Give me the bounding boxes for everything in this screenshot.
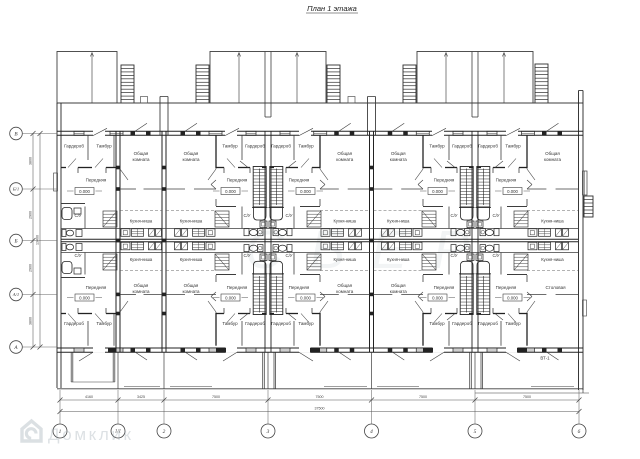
- axis line А/1: [22, 294, 57, 296]
- axis extension line 1: [59, 390, 61, 424]
- kitchen fixtures bottom row: [528, 242, 569, 250]
- dashed service line top: [320, 210, 370, 212]
- room label Тамбур: [298, 144, 314, 149]
- svg-text:Тамбур: Тамбур: [429, 321, 445, 326]
- dashed service line top: [166, 210, 216, 212]
- dashed service line bottom: [374, 270, 424, 272]
- room label Тамбур: [429, 144, 445, 149]
- watermark logo: [22, 421, 41, 441]
- room label Передняя: [434, 178, 455, 183]
- external ladder right side: [584, 196, 593, 217]
- svg-text:С/У: С/У: [243, 253, 250, 258]
- dashed service line top: [527, 210, 578, 212]
- room label Кухня-ниша top: [130, 219, 153, 224]
- svg-text:Гардероб: Гардероб: [478, 321, 498, 326]
- corner stair M475 s-1 b: [422, 254, 436, 270]
- room label Общая комната top: [390, 151, 408, 162]
- svg-text:2900: 2900: [29, 211, 33, 219]
- left dim text 3800: [29, 317, 33, 325]
- kitchen fixtures bottom row: [321, 242, 362, 250]
- entry windows/door bottom: [223, 347, 256, 361]
- wc fixtures left-end top: [62, 208, 82, 237]
- corner stair left-end: [103, 254, 117, 270]
- entry windows/door left-end bottom: [74, 347, 105, 361]
- svg-text:Кухня-ниша: Кухня-ниша: [334, 219, 357, 224]
- bottom facade wall band: [57, 348, 583, 352]
- svg-text:Б: Б: [13, 238, 17, 244]
- room label С/У: [285, 213, 292, 218]
- svg-text:Передняя: Передняя: [227, 178, 248, 183]
- room label С/У: [450, 213, 457, 218]
- axis extension line 1/1: [117, 390, 119, 424]
- room label Общая комната bottom: [336, 283, 354, 294]
- living col wall top: [120, 188, 162, 190]
- title: План 1 этажа: [306, 4, 358, 13]
- room label Кухня-ниша top: [541, 219, 564, 224]
- axis line А: [22, 346, 57, 348]
- axis extension line 5: [474, 390, 476, 424]
- room label Гардероб: [452, 321, 472, 326]
- wc fixtures M475 s1 t: [476, 208, 500, 236]
- living col wall top: [320, 188, 370, 190]
- svg-text:3: 3: [266, 429, 270, 435]
- svg-text:0.000: 0.000: [225, 295, 236, 300]
- bottom dim chain: [58, 398, 582, 403]
- outdoor stair ladder at x121: [121, 65, 134, 103]
- bottom dim text 7500: [523, 395, 531, 399]
- corner stair M268 s-1 b: [215, 254, 229, 270]
- room label Кухня-ниша top: [180, 219, 203, 224]
- stair shaft M475 s-1 b: [460, 274, 473, 315]
- room label Гардероб: [271, 144, 291, 149]
- living col wall top: [374, 188, 424, 190]
- svg-text:Передняя: Передняя: [496, 285, 517, 290]
- left dim line outer: [31, 131, 36, 350]
- room label Общая комната bottom: [132, 283, 150, 294]
- axis circle Б: [10, 234, 23, 247]
- svg-text:комната: комната: [132, 157, 150, 162]
- living facade top: [522, 123, 563, 135]
- svg-text:7500: 7500: [212, 395, 220, 399]
- kitchen fixtures top row: [175, 229, 216, 237]
- svg-text:7500: 7500: [523, 395, 531, 399]
- svg-text:Общая: Общая: [391, 283, 406, 288]
- bottom facade piers: [108, 348, 527, 353]
- room label Гардероб: [271, 321, 291, 326]
- svg-text:С/У: С/У: [450, 213, 457, 218]
- window right wall: [583, 171, 588, 195]
- room label С/У: [492, 253, 499, 258]
- corner stair M268 s1 t: [307, 211, 321, 227]
- bottom total 37500: [315, 407, 325, 411]
- svg-text:комната: комната: [544, 157, 562, 162]
- svg-text:ВТ-1: ВТ-1: [540, 356, 550, 361]
- svg-text:С/У: С/У: [285, 253, 292, 258]
- walls unit M475 side1 top: [477, 135, 535, 228]
- corner stair M475 s-1 t: [422, 211, 436, 227]
- room label Передняя: [227, 178, 248, 183]
- party wall stub axis 2 above facade: [160, 97, 168, 136]
- entry windows/door bottom: [487, 347, 520, 361]
- walls unit M268 side-1 top: [208, 135, 266, 228]
- svg-text:Тамбур: Тамбур: [298, 144, 314, 149]
- svg-text:3800: 3800: [29, 317, 33, 325]
- room label Общая комната bottom: [390, 283, 408, 294]
- left dim text 3800: [29, 157, 33, 165]
- bottom dim total line: [58, 409, 582, 414]
- bottom dim text 4160: [85, 395, 93, 399]
- room label Тамбур: [505, 144, 521, 149]
- svg-text:Общая: Общая: [134, 151, 149, 156]
- party wall stub axis 4 above facade: [368, 97, 376, 136]
- svg-text:Кухня-ниша: Кухня-ниша: [541, 257, 564, 262]
- outdoor stair ladder at x196: [196, 65, 209, 103]
- svg-text:13400: 13400: [36, 235, 40, 245]
- svg-text:Тамбур: Тамбур: [222, 144, 238, 149]
- walls unit M268 side1 bottom: [270, 253, 328, 346]
- dashed service line bottom: [320, 270, 370, 272]
- room label Тамбур: [505, 321, 521, 326]
- bottom dim text 3425: [137, 395, 145, 399]
- watermark text Домклик: [48, 425, 134, 444]
- kitchen fixtures top row: [321, 229, 362, 237]
- slab step stub x140: [141, 97, 148, 104]
- terrace pair at axis 5: [417, 52, 533, 118]
- room label Гардероб: [478, 321, 498, 326]
- svg-text:0.000: 0.000: [300, 189, 311, 194]
- room label Передняя: [496, 285, 517, 290]
- wc fixtures M268 s1 b: [269, 245, 293, 274]
- svg-text:Общая: Общая: [337, 283, 352, 288]
- svg-text:0.000: 0.000: [300, 295, 311, 300]
- svg-text:С/У: С/У: [492, 213, 499, 218]
- room label Кухня-ниша top: [387, 219, 410, 224]
- room label С/У: [74, 253, 81, 258]
- wc fixtures M268 s1 t: [269, 208, 293, 236]
- entry windows/door left-end top: [74, 128, 107, 136]
- svg-text:Тамбур: Тамбур: [96, 321, 112, 326]
- svg-text:Кухня-ниша: Кухня-ниша: [130, 219, 153, 224]
- svg-text:0.000: 0.000: [79, 189, 90, 194]
- dashed service line top: [120, 210, 162, 212]
- living col wall top: [166, 188, 216, 190]
- stair shaft M268 s-1 b: [253, 274, 266, 315]
- svg-text:3800: 3800: [29, 157, 33, 165]
- terrace block left (unit 1): [57, 52, 117, 104]
- svg-text:Кухня-ниша: Кухня-ниша: [334, 257, 357, 262]
- room label Передняя: [227, 285, 248, 290]
- axis extension line 2: [163, 390, 165, 424]
- stair shaft M268 s1 t: [270, 167, 283, 208]
- entry windows/door bottom: [280, 347, 313, 361]
- outdoor stair ladder at x327: [327, 65, 340, 103]
- svg-text:Тамбур: Тамбур: [222, 321, 238, 326]
- svg-text:5: 5: [474, 429, 477, 435]
- living facade bottom: [388, 348, 430, 360]
- party wall axis 5 (module): [472, 131, 478, 352]
- left dim total: [36, 235, 40, 245]
- svg-text:Тамбур: Тамбур: [429, 144, 445, 149]
- kitchen band wall top: [61, 228, 578, 230]
- axis circle Б/1: [10, 183, 23, 196]
- living facade bottom: [314, 348, 355, 360]
- svg-text:А/1: А/1: [12, 292, 19, 297]
- svg-text:0.000: 0.000: [432, 295, 443, 300]
- walls unit M268 side-1 bottom: [208, 253, 266, 346]
- room label С/У: [243, 213, 250, 218]
- kitchen fixtures bottom row: [175, 242, 216, 250]
- bottom dim text 7500: [212, 395, 220, 399]
- party wall axis 2: [162, 131, 166, 352]
- svg-text:4: 4: [370, 429, 373, 435]
- walls left-end unit top: [61, 135, 128, 228]
- svg-text:Кухня-ниша: Кухня-ниша: [387, 257, 410, 262]
- level mark 0.000: [288, 188, 323, 195]
- stair shaft M268 s1 b: [270, 274, 283, 315]
- svg-text:Тамбур: Тамбур: [96, 144, 112, 149]
- level mark 0.000: [420, 294, 455, 301]
- room label С/У: [243, 253, 250, 258]
- corner stair M475 s1 b: [514, 254, 528, 270]
- room label Столовая bottom: [545, 285, 566, 290]
- entry windows/door top: [487, 128, 520, 136]
- svg-text:Гардероб: Гардероб: [452, 144, 472, 149]
- dashed service line bottom: [120, 270, 162, 272]
- axis line В: [22, 133, 57, 135]
- label ВТ-1: [540, 356, 550, 361]
- level mark 0.000: [495, 294, 530, 301]
- kitchen fixtures bottom row: [382, 242, 423, 250]
- living facade bottom: [181, 348, 223, 360]
- svg-text:Кухня-ниша: Кухня-ниша: [130, 257, 153, 262]
- svg-text:Общая: Общая: [184, 283, 199, 288]
- svg-text:Гардероб: Гардероб: [245, 321, 265, 326]
- axis circle 1: [53, 424, 67, 438]
- entry windows/door top: [432, 128, 463, 136]
- svg-text:7500: 7500: [316, 395, 324, 399]
- wc fixtures M475 s-1 b: [451, 245, 475, 274]
- svg-text:Домклик: Домклик: [48, 425, 134, 444]
- level mark 0.000: [213, 294, 248, 301]
- svg-text:Кухня-ниша: Кухня-ниша: [387, 219, 410, 224]
- axis circle В: [10, 127, 23, 140]
- room label Передняя: [86, 178, 107, 183]
- party wall axis 4: [370, 131, 374, 352]
- dashed service line bottom: [166, 270, 216, 272]
- party wall axis 1/1: [116, 131, 120, 352]
- dashed service line top: [374, 210, 424, 212]
- room label Гардероб: [478, 144, 498, 149]
- left dim text 2900: [29, 264, 33, 272]
- living col wall top: [527, 188, 578, 190]
- walls unit M475 side-1 top: [415, 135, 473, 228]
- left exterior wall: [57, 103, 61, 388]
- axis circle 4: [365, 424, 379, 438]
- room label Общая комната top: [336, 151, 354, 162]
- room label Тамбур: [96, 321, 112, 326]
- kitchen fixtures top row: [528, 229, 569, 237]
- svg-text:37500: 37500: [315, 407, 325, 411]
- svg-text:2900: 2900: [29, 264, 33, 272]
- left dim line inner: [38, 131, 43, 350]
- wc fixtures M475 s1 b: [476, 245, 500, 274]
- stair shaft M475 s1 t: [477, 167, 490, 208]
- bottom porch boundary: [57, 352, 589, 393]
- svg-text:Общая: Общая: [184, 151, 199, 156]
- svg-text:С/У: С/У: [74, 253, 81, 258]
- living col wall bottom: [120, 293, 162, 295]
- left dim text 2900: [29, 211, 33, 219]
- svg-text:0.000: 0.000: [432, 189, 443, 194]
- axis circle 5: [468, 424, 482, 438]
- room label Общая комната top: [544, 151, 562, 162]
- right exterior wall: [579, 91, 584, 391]
- room label Гардероб: [245, 321, 265, 326]
- svg-text:Общая: Общая: [134, 283, 149, 288]
- living facade top: [181, 123, 223, 135]
- level mark 0.000: [67, 188, 102, 195]
- room label Кухня-ниша bottom: [541, 257, 564, 262]
- dashed service line bottom: [527, 270, 578, 272]
- entry windows/door top: [225, 128, 256, 136]
- room label С/У: [450, 253, 457, 258]
- living facade top: [110, 123, 151, 135]
- living col wall bottom: [320, 293, 370, 295]
- entry windows/door bottom: [430, 347, 463, 361]
- svg-text:комната: комната: [390, 289, 408, 294]
- room label Передняя: [289, 178, 310, 183]
- svg-text:комната: комната: [182, 289, 200, 294]
- kitchen fixtures top row: [121, 229, 162, 237]
- svg-text:Гардероб: Гардероб: [64, 321, 84, 326]
- level mark 0.000: [288, 294, 323, 301]
- corner stair M268 s-1 t: [215, 211, 229, 227]
- svg-text:С/У: С/У: [492, 253, 499, 258]
- svg-text:комната: комната: [182, 157, 200, 162]
- kitchen fixtures bottom row: [121, 242, 162, 250]
- room label Кухня-ниша bottom: [180, 257, 203, 262]
- svg-text:Передняя: Передняя: [496, 178, 517, 183]
- svg-text:Гардероб: Гардероб: [271, 144, 291, 149]
- walls unit M268 side1 top: [270, 135, 328, 228]
- top terrace slab edge line: [57, 102, 583, 104]
- room label Тамбур: [298, 321, 314, 326]
- room label С/У: [285, 253, 292, 258]
- svg-text:Передняя: Передняя: [289, 178, 310, 183]
- terrace pair at axis 3: [210, 52, 326, 118]
- svg-text:Кухня-ниша: Кухня-ниша: [541, 219, 564, 224]
- outdoor stair ladder at x535: [535, 64, 548, 103]
- living facade top: [388, 123, 430, 135]
- window right wall lower: [583, 300, 587, 316]
- faint watermark center: [245, 220, 495, 280]
- svg-text:Передняя: Передняя: [434, 285, 455, 290]
- svg-text:Гардероб: Гардероб: [478, 144, 498, 149]
- level mark 0.000: [67, 294, 102, 301]
- svg-text:комната: комната: [336, 289, 354, 294]
- wc fixtures M268 s-1 b: [244, 245, 268, 274]
- living col wall bottom: [374, 293, 424, 295]
- svg-text:Передняя: Передняя: [434, 178, 455, 183]
- svg-text:комната: комната: [336, 157, 354, 162]
- axis extension line 6: [578, 390, 580, 424]
- stair shaft M268 s-1 t: [253, 167, 266, 208]
- room label Гардероб: [452, 144, 472, 149]
- svg-text:Гардероб: Гардероб: [64, 144, 84, 149]
- svg-text:С/У: С/У: [243, 213, 250, 218]
- svg-text:С/У: С/У: [74, 213, 81, 218]
- wc fixtures M268 s-1 t: [244, 208, 268, 236]
- axis circle А/1: [10, 288, 23, 301]
- svg-text:Гардероб: Гардероб: [245, 144, 265, 149]
- outdoor stair ladder at x403: [403, 65, 416, 103]
- svg-text:6: 6: [578, 429, 581, 435]
- room label Кухня-ниша bottom: [387, 257, 410, 262]
- room label Гардероб: [64, 321, 84, 326]
- kitchen band wall bottom: [61, 252, 578, 254]
- central wall axis Б: [61, 239, 578, 241]
- svg-text:0.000: 0.000: [507, 295, 518, 300]
- axis circle 3: [261, 424, 275, 438]
- svg-text:Гардероб: Гардероб: [271, 321, 291, 326]
- axis line Б/1: [22, 188, 57, 190]
- room label Кухня-ниша bottom: [130, 257, 153, 262]
- svg-text:Общая: Общая: [391, 151, 406, 156]
- window left wall: [54, 173, 58, 191]
- room label Тамбур: [96, 144, 112, 149]
- room label Передняя: [496, 178, 517, 183]
- svg-text:Передняя: Передняя: [86, 178, 107, 183]
- svg-text:0.000: 0.000: [225, 189, 236, 194]
- room label С/У: [492, 213, 499, 218]
- svg-text:0.000: 0.000: [79, 295, 90, 300]
- walls unit M475 side-1 bottom: [415, 253, 473, 346]
- top facade wall band: [57, 131, 583, 135]
- svg-text:Кухня-ниша: Кухня-ниша: [180, 257, 203, 262]
- room label Тамбур: [222, 321, 238, 326]
- wc fixtures left-end bottom: [62, 244, 82, 275]
- corner stair M475 s1 t: [514, 211, 528, 227]
- level mark 0.000: [495, 188, 530, 195]
- walls left-end unit bottom: [61, 253, 128, 346]
- svg-text:2: 2: [163, 429, 166, 435]
- axis line Б: [22, 240, 57, 242]
- stair shaft M475 s1 b: [477, 274, 490, 315]
- living col wall bottom: [527, 293, 578, 295]
- room label Передняя: [86, 285, 107, 290]
- room label Передняя: [434, 285, 455, 290]
- stair shaft M475 s-1 t: [460, 167, 473, 208]
- kitchen fixtures top row: [382, 229, 423, 237]
- room label Кухня-ниша top: [334, 219, 357, 224]
- svg-text:Общая: Общая: [545, 151, 560, 156]
- room label Передняя: [289, 285, 310, 290]
- svg-text:Передняя: Передняя: [227, 285, 248, 290]
- svg-text:Гардероб: Гардероб: [452, 321, 472, 326]
- room label Гардероб: [245, 144, 265, 149]
- axis circle 1/1: [111, 424, 125, 438]
- corner stair M268 s1 b: [307, 254, 321, 270]
- living col wall bottom: [166, 293, 216, 295]
- bottom dim text 7500: [316, 395, 324, 399]
- axis circle А: [10, 341, 23, 354]
- svg-text:Тамбур: Тамбур: [505, 144, 521, 149]
- svg-text:Общая: Общая: [337, 151, 352, 156]
- svg-text:Тамбур: Тамбур: [505, 321, 521, 326]
- room label Гардероб: [64, 144, 84, 149]
- svg-text:Передняя: Передняя: [86, 285, 107, 290]
- svg-text:Столовая: Столовая: [545, 285, 566, 290]
